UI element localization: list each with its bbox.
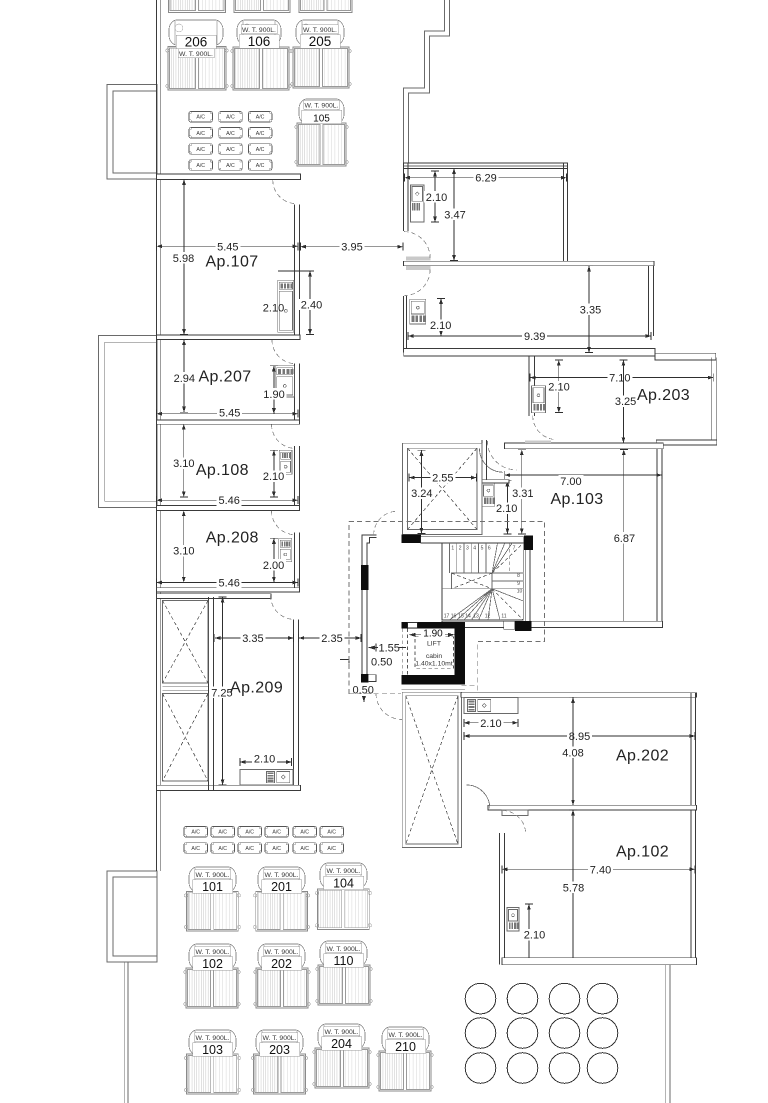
dimension 3.35 room 9.39 [578, 266, 603, 353]
stair treads upper flight [449, 543, 512, 573]
door swing Ap.209 entry [271, 595, 295, 619]
stair top-right black wall [524, 536, 533, 550]
dimension 5.45 Ap.207 [157, 407, 298, 420]
A/C unit lower r2c5 [293, 843, 317, 854]
svg-text:6.87: 6.87 [614, 533, 635, 545]
wall Ap.107/Ap.207 divider [157, 335, 301, 340]
water tank 105 [295, 99, 348, 166]
svg-text:2.10: 2.10 [426, 192, 447, 204]
A/C unit upper r2c3 [248, 128, 272, 139]
water tank 205 [291, 20, 351, 88]
kitchen unit room 6.29 [411, 185, 425, 222]
wall Ap.202/Ap.102 divider [488, 805, 697, 810]
svg-text:2.10: 2.10 [480, 718, 501, 730]
kitchen unit Ap.208 [279, 538, 292, 561]
dimension 3.24 [409, 450, 434, 533]
svg-text:A/C: A/C [327, 846, 336, 852]
svg-text:A/C: A/C [196, 147, 205, 153]
dimension 1.90 Ap.207 [262, 366, 287, 414]
svg-text:A/C: A/C [218, 830, 227, 836]
door leaf white by stair bottom [504, 621, 515, 629]
svg-text:A/C: A/C [300, 846, 309, 852]
svg-text:102: 102 [202, 957, 223, 971]
svg-text:3.10: 3.10 [173, 546, 194, 558]
stair top-left black wall [401, 535, 420, 544]
dimension 7.25 Ap.209 [209, 597, 234, 785]
svg-text:A/C: A/C [191, 830, 200, 836]
dimension 4.08 [561, 697, 586, 805]
svg-text:12: 12 [485, 614, 491, 620]
svg-text:3: 3 [466, 546, 469, 552]
svg-text:2.10: 2.10 [254, 754, 275, 766]
door swing Ap.103 entry door [480, 449, 504, 473]
terrace outline mid-left [98, 336, 157, 508]
dimension 2.10 Ap.209 [240, 753, 292, 766]
stair right wall [525, 550, 530, 621]
door swing Ap.208 entry [272, 511, 296, 535]
svg-text:A/C: A/C [245, 846, 254, 852]
svg-text:7.40: 7.40 [590, 864, 611, 876]
svg-text:16: 16 [451, 614, 457, 620]
dimension 3.10 Ap.108 [171, 424, 196, 497]
svg-text:5.45: 5.45 [219, 408, 240, 420]
stair bottom wall [442, 621, 662, 627]
svg-text:4: 4 [473, 546, 476, 552]
dimension 2.10 room 9.39 [428, 299, 453, 337]
svg-text:cabin: cabin [426, 653, 442, 660]
A/C unit lower r2c2 [211, 843, 235, 854]
A/C unit lower r2c1 [184, 843, 208, 854]
svg-text:2.40: 2.40 [301, 300, 322, 312]
svg-text:Ap.108: Ap.108 [196, 462, 249, 479]
planter shaft upper (open shaft, crossed) [163, 601, 209, 684]
door swing room 9.39 door [404, 270, 430, 296]
svg-text:110: 110 [334, 954, 354, 968]
svg-text:201: 201 [271, 880, 292, 894]
svg-text:104: 104 [333, 877, 354, 891]
dimension 0.50 wall [340, 655, 392, 669]
svg-text:2.94: 2.94 [174, 373, 195, 385]
kitchen counter Ap.202 [464, 698, 518, 714]
svg-text:1.40x1.10mt: 1.40x1.10mt [415, 661, 453, 668]
counter on divider [502, 810, 528, 816]
svg-text:A/C: A/C [226, 163, 235, 169]
Ap.209 right wall [294, 619, 299, 785]
svg-text:3.35: 3.35 [580, 305, 601, 317]
building left wall lower segment [157, 791, 161, 871]
boundary line below Ap.102 [665, 965, 670, 1103]
svg-text:Ap.207: Ap.207 [198, 369, 251, 386]
svg-text:A/C: A/C [226, 115, 235, 121]
A/C unit lower r1c5 [293, 827, 317, 838]
lift left dashed opening [402, 628, 407, 675]
water tank 210 [377, 1027, 433, 1091]
lift cabin dashed box [415, 637, 454, 669]
svg-text:A/C: A/C [218, 846, 227, 852]
svg-text:0.50: 0.50 [353, 685, 374, 697]
svg-text:9.39: 9.39 [524, 331, 545, 343]
svg-text:A/C: A/C [272, 830, 281, 836]
svg-text:2.10: 2.10 [496, 503, 517, 515]
dimension 3.47 [443, 168, 468, 260]
svg-text:15: 15 [458, 614, 464, 620]
lift lower wall line [402, 689, 466, 691]
door swing shaft-side door [487, 441, 516, 470]
svg-text:203: 203 [269, 1043, 290, 1057]
svg-text:A/C: A/C [272, 846, 281, 852]
water tank 110 [316, 941, 372, 1005]
Ap.208 right wall [295, 533, 300, 588]
svg-text:2.10: 2.10 [430, 320, 451, 332]
kitchen counter Ap.209 [240, 769, 293, 784]
svg-text:2: 2 [459, 546, 462, 552]
svg-text:5.45: 5.45 [217, 241, 238, 253]
kitchen unit Ap.102 [507, 907, 519, 931]
svg-text:A/C: A/C [300, 830, 309, 836]
A/C unit upper r3c2 [219, 144, 243, 155]
black wall piece stair bottom [515, 621, 531, 631]
svg-text:7.00: 7.00 [560, 476, 581, 488]
A/C unit lower r2c3 [238, 843, 262, 854]
building left wall [157, 0, 161, 791]
dimension 5.46 Ap.208 [157, 577, 298, 590]
stair top wall [421, 537, 524, 543]
svg-text:5.98: 5.98 [173, 253, 194, 265]
door swing Ap.107 entry [273, 180, 297, 204]
svg-text:5.46: 5.46 [218, 495, 239, 507]
staircase outline [442, 543, 523, 620]
wall right building middle [403, 261, 654, 266]
svg-text:W. T. 900L.: W. T. 900L. [263, 1035, 297, 1042]
svg-text:A/C: A/C [196, 115, 205, 121]
svg-text:3.24: 3.24 [411, 488, 432, 500]
dimension 5.45 Ap.107 [157, 241, 299, 254]
site boundary stepped outline top-right [404, 0, 445, 163]
svg-text:7: 7 [513, 546, 516, 552]
stair winder treads lower flight [442, 589, 523, 620]
svg-text:W. T. 900L.: W. T. 900L. [196, 1035, 230, 1042]
svg-text:W. T. 900L.: W. T. 900L. [305, 103, 339, 110]
Ap.203 balcony right [711, 358, 716, 441]
wall room 9.39 bottom [404, 349, 655, 357]
svg-text:2.10: 2.10 [548, 382, 569, 394]
door sill upper [406, 257, 431, 261]
dimension 2.00 Ap.208 [261, 538, 286, 582]
stair step numbers [444, 546, 523, 620]
door swing Ap.202 inner door [466, 785, 490, 809]
svg-text:11: 11 [501, 614, 506, 620]
svg-text:Ap.209: Ap.209 [230, 680, 283, 697]
lift cabin labels [415, 641, 453, 668]
svg-text:A/C: A/C [327, 830, 336, 836]
svg-text:W. T. 900L.: W. T. 900L. [327, 868, 361, 875]
wall Ap.203 balcony bottom [656, 440, 717, 445]
A/C unit upper r4c2 [219, 160, 243, 171]
lift top black wall [402, 622, 466, 628]
Ap.103 right wall [657, 448, 662, 627]
lift bottom black wall [402, 675, 466, 684]
A/C unit lower r1c2 [211, 827, 235, 838]
planter shaft divider [163, 687, 209, 691]
svg-text:W. T. 900L.: W. T. 900L. [303, 27, 337, 34]
stair landing (crossed) [452, 573, 493, 589]
dimension 2.10 Ap.102 kitchen [522, 904, 547, 963]
svg-text:W. T. 900L.: W. T. 900L. [325, 1029, 359, 1036]
kitchen unit Ap.107 [278, 280, 294, 332]
svg-text:205: 205 [309, 34, 332, 49]
svg-text:210: 210 [395, 1040, 416, 1054]
A/C unit lower r1c3 [238, 827, 262, 838]
water tank 104 [315, 863, 371, 929]
svg-text:Ap.103: Ap.103 [550, 491, 603, 508]
lift right black wall [455, 622, 465, 680]
svg-text:3.25: 3.25 [615, 396, 636, 408]
svg-text:6.29: 6.29 [475, 173, 496, 185]
door swing Ap.108 entry [272, 424, 296, 448]
dimension 5.46 Ap.108 [157, 494, 298, 507]
dimension 2.10 Ap.108 [261, 450, 286, 497]
svg-text:W. T. 900L.: W. T. 900L. [196, 949, 230, 956]
svg-text:A/C: A/C [256, 163, 265, 169]
svg-text:7.10: 7.10 [609, 373, 630, 385]
A/C unit upper r1c3 [248, 112, 272, 123]
right building right wall [563, 163, 567, 261]
svg-text:3.31: 3.31 [512, 488, 533, 500]
door swing room 6.29 door [404, 232, 430, 258]
lobby dashed link to Ap.202 [461, 684, 477, 686]
lobby west wall [361, 535, 377, 682]
svg-text:204: 204 [331, 1037, 352, 1051]
svg-text:A/C: A/C [245, 830, 254, 836]
Ap.207 right wall [295, 364, 300, 420]
Ap.102 left wall [499, 833, 504, 965]
kitchen unit Ap.103 [482, 483, 495, 506]
svg-text:3.47: 3.47 [444, 210, 465, 222]
svg-text:2.10: 2.10 [263, 303, 284, 315]
dimension 7.00 [505, 471, 662, 488]
svg-text:A/C: A/C [226, 131, 235, 137]
door swing lobby door upper [374, 511, 398, 535]
Ap.202/102 right wall [691, 693, 696, 965]
lift top door notch [408, 623, 417, 628]
A/C unit upper r4c3 [248, 160, 272, 171]
dimension 0.50 lower [353, 685, 374, 703]
dimension 2.40 [299, 271, 324, 335]
dimension 7.10 [530, 372, 713, 385]
svg-text:A/C: A/C [196, 163, 205, 169]
dimension 7.40 [502, 864, 695, 877]
A/C unit upper r1c1 [189, 112, 213, 123]
Ap.203 left wall [529, 357, 535, 416]
svg-text:A/C: A/C [191, 846, 200, 852]
dimension 2.10 Ap.103 kitchen [494, 481, 519, 534]
dimension 8.95 [464, 730, 695, 743]
dimension 1.55 [368, 642, 406, 654]
dimension 6.87 [612, 450, 637, 627]
wall Ap.103 top [504, 443, 663, 449]
A/C unit upper r2c2 [219, 128, 243, 139]
door sill Ap.103 [525, 441, 551, 444]
water tank 203 [251, 1030, 307, 1094]
water tank 206 [166, 20, 228, 90]
svg-text:105: 105 [313, 114, 330, 125]
svg-text:3.35: 3.35 [242, 633, 263, 645]
svg-text:W. T. 900L.: W. T. 900L. [196, 872, 230, 879]
lobby dashed boundary [349, 522, 545, 694]
water tank 204 [313, 1024, 371, 1088]
right building left wall upper [403, 163, 407, 231]
dimension 5.78 [561, 810, 586, 963]
right building left wall lower [403, 296, 406, 353]
dimension 2.10 Ap.202 kitchen [464, 717, 518, 730]
dimension 3.25 [613, 360, 638, 443]
dimension 2.55 [409, 472, 477, 485]
wall Ap.107 top [157, 174, 301, 179]
svg-text:2.35: 2.35 [321, 633, 342, 645]
svg-text:A/C: A/C [196, 131, 205, 137]
dimension 2.10 room 6.29 [424, 171, 449, 222]
svg-text:5: 5 [481, 546, 484, 552]
wall Ap.208 bottom [157, 588, 300, 592]
svg-text:6: 6 [488, 546, 491, 552]
A/C unit upper r4c1 [189, 160, 213, 171]
svg-text:A/C: A/C [226, 147, 235, 153]
svg-text:Ap.203: Ap.203 [637, 387, 690, 404]
svg-text:W. T. 900L.: W. T. 900L. [265, 872, 299, 879]
Ap.107 right wall [295, 204, 300, 335]
Ap.108 right wall [295, 446, 300, 505]
dimension 3.10 Ap.208 [171, 511, 196, 583]
water tank 103 [184, 1030, 240, 1094]
wall right of planter shaft [209, 597, 214, 790]
boundary line bottom-left [125, 962, 128, 1103]
stair direction dashes [492, 543, 523, 620]
dimension 9.39 [408, 330, 651, 343]
svg-text:2.10: 2.10 [263, 471, 284, 483]
partial water tank bases at top edge [169, 0, 226, 13]
svg-text:106: 106 [248, 34, 271, 49]
svg-text:14: 14 [465, 614, 471, 620]
door swing Ap.203 door [533, 416, 557, 440]
A/C unit upper r1c2 [219, 112, 243, 123]
door sill lower [406, 266, 431, 270]
svg-text:206: 206 [185, 35, 208, 50]
kitchen unit room 9.39 [410, 299, 426, 324]
dimension 3.35 Ap.209 [215, 632, 294, 645]
dimension 3.95 gap [300, 241, 403, 254]
kitchen unit Ap.203 [532, 386, 546, 413]
light shaft by stair (open shaft, crossed) [403, 443, 483, 534]
svg-text:8.95: 8.95 [569, 731, 590, 743]
svg-text:4.08: 4.08 [562, 748, 583, 760]
svg-text:101: 101 [202, 880, 223, 894]
wall Ap.209 bottom [157, 785, 301, 790]
wall kitchen partition [482, 480, 509, 483]
svg-text:A/C: A/C [256, 131, 265, 137]
dimension 2.94 Ap.207 [172, 340, 197, 413]
stair treads right flight [492, 573, 523, 589]
lobby dashed boundary bottom stub [349, 693, 401, 695]
dimension 5.98 Ap.107 [171, 179, 196, 334]
A/C unit upper r2c1 [189, 128, 213, 139]
water tank 101 [184, 867, 240, 931]
svg-text:103: 103 [202, 1043, 223, 1057]
planter shaft lower (open shaft, crossed) [163, 694, 209, 782]
water tank 102 [184, 944, 240, 1008]
light shaft below lift (open shaft, crossed) [402, 692, 461, 847]
door swing Ap.207 entry [272, 340, 296, 364]
wall right of shaft [482, 440, 486, 480]
svg-text:1.55: 1.55 [379, 643, 400, 655]
wall Ap.209 top [157, 594, 272, 599]
A/C unit upper r3c3 [248, 144, 272, 155]
wall right building top [403, 163, 567, 169]
svg-text:9: 9 [517, 581, 520, 587]
water tank 202 [254, 944, 310, 1008]
svg-text:Ap.202: Ap.202 [616, 748, 669, 765]
wall right of middle room [649, 266, 654, 336]
svg-text:W. T. 900L.: W. T. 900L. [242, 27, 276, 34]
A/C unit lower r1c1 [184, 827, 208, 838]
svg-text:8: 8 [517, 573, 520, 579]
svg-text:2.55: 2.55 [432, 473, 453, 485]
dimension 1.90 lift [409, 629, 455, 640]
svg-text:10: 10 [517, 589, 523, 595]
door swing lobby door lower [376, 694, 402, 720]
svg-text:13: 13 [473, 614, 479, 620]
svg-text:17: 17 [444, 614, 450, 620]
svg-text:2.10: 2.10 [524, 930, 545, 942]
wall Ap.202 top [461, 693, 697, 698]
svg-text:W. T. 900L.: W. T. 900L. [327, 946, 361, 953]
terrace outline lower-left [107, 871, 157, 962]
water tank 106 [231, 20, 291, 90]
dimension 2.10 Ap.203 [547, 360, 572, 413]
svg-text:Ap.107: Ap.107 [205, 254, 258, 271]
terrace outline upper-left [107, 85, 157, 179]
svg-text:A/C: A/C [256, 115, 265, 121]
svg-text:3.95: 3.95 [341, 242, 362, 254]
dimension 2.35 gap [299, 632, 361, 645]
svg-text:LIFT: LIFT [427, 641, 441, 648]
svg-text:5.46: 5.46 [218, 578, 239, 590]
solar collector circles grid [465, 983, 618, 1083]
dim text 2.10 Ap.107 [278, 270, 310, 272]
dimension 3.31 [510, 450, 535, 534]
svg-text:2.00: 2.00 [263, 560, 284, 572]
wall Ap.108/Ap.208 divider [157, 505, 300, 510]
svg-text:5.78: 5.78 [563, 883, 584, 895]
water tank 201 [254, 867, 310, 931]
svg-text:1.90: 1.90 [263, 389, 284, 401]
svg-text:W. T. 900L.: W. T. 900L. [389, 1032, 423, 1039]
wall Ap.207/Ap.108 divider [157, 420, 300, 424]
A/C unit lower r2c6 [320, 843, 344, 854]
wall Ap.203 balcony top [655, 353, 716, 360]
svg-text:202: 202 [271, 957, 292, 971]
kitchen unit Ap.108 [279, 450, 292, 474]
wall Ap.102 bottom [502, 958, 697, 965]
A/C unit lower r1c4 [265, 827, 289, 838]
svg-text:Ap.208: Ap.208 [206, 530, 259, 547]
svg-text:3.10: 3.10 [173, 458, 194, 470]
A/C unit lower r2c4 [265, 843, 289, 854]
svg-text:0.50: 0.50 [371, 657, 392, 669]
A/C unit upper r3c1 [189, 144, 213, 155]
dimension 6.29 [405, 172, 567, 185]
svg-text:A/C: A/C [256, 147, 265, 153]
svg-text:1: 1 [451, 546, 454, 552]
